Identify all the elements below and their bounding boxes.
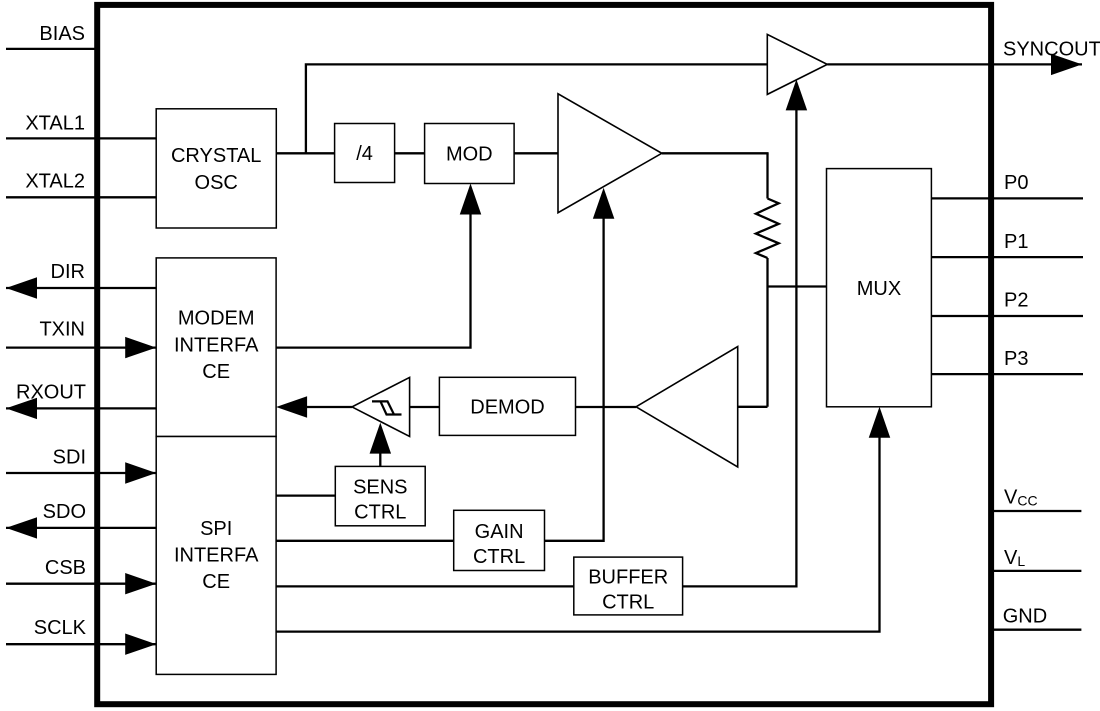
- svg-text:P0: P0: [1004, 172, 1028, 194]
- svg-text:MODEM: MODEM: [178, 308, 255, 330]
- svg-text:XTAL1: XTAL1: [25, 113, 85, 135]
- svg-text:CE: CE: [202, 571, 230, 593]
- svg-text:OSC: OSC: [195, 172, 238, 194]
- svg-text:BUFFER: BUFFER: [588, 566, 668, 588]
- svg-text:P2: P2: [1004, 290, 1028, 312]
- svg-text:SENS: SENS: [353, 477, 407, 499]
- svg-text:INTERFA: INTERFA: [174, 334, 259, 356]
- svg-text:SDO: SDO: [43, 501, 86, 523]
- svg-text:MOD: MOD: [446, 143, 493, 165]
- svg-text:TXIN: TXIN: [39, 319, 85, 341]
- svg-text:P1: P1: [1004, 231, 1028, 253]
- svg-text:CE: CE: [202, 361, 230, 383]
- svg-text:SCLK: SCLK: [34, 617, 87, 639]
- svg-text:INTERFA: INTERFA: [174, 545, 259, 567]
- svg-text:RXOUT: RXOUT: [16, 382, 86, 404]
- svg-text:BIAS: BIAS: [39, 23, 85, 45]
- svg-text:CSB: CSB: [45, 557, 86, 579]
- svg-text:P3: P3: [1004, 348, 1028, 370]
- svg-text:MUX: MUX: [857, 278, 901, 300]
- svg-text:/4: /4: [356, 143, 373, 165]
- svg-text:CTRL: CTRL: [473, 546, 525, 568]
- svg-text:SPI: SPI: [200, 518, 232, 540]
- svg-text:GAIN: GAIN: [475, 521, 524, 543]
- svg-text:CTRL: CTRL: [354, 502, 406, 524]
- svg-text:SYNCOUT: SYNCOUT: [1003, 39, 1100, 61]
- svg-text:GND: GND: [1003, 606, 1047, 628]
- svg-text:DEMOD: DEMOD: [470, 396, 544, 418]
- svg-text:SDI: SDI: [53, 447, 86, 469]
- svg-text:DIR: DIR: [51, 261, 85, 283]
- svg-text:XTAL2: XTAL2: [25, 171, 85, 193]
- svg-text:CRYSTAL: CRYSTAL: [171, 145, 261, 167]
- svg-text:CTRL: CTRL: [602, 591, 654, 613]
